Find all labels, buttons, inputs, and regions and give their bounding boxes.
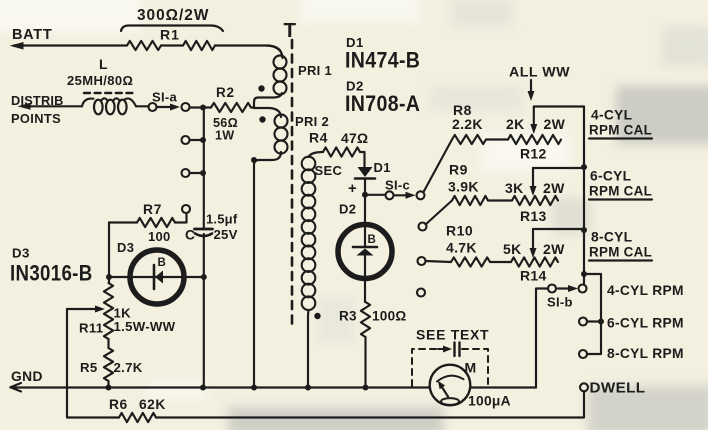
potentiometer R11 (67, 283, 176, 339)
wire (424, 140, 453, 193)
potentiometer R12 (506, 107, 566, 162)
svg-text:47Ω: 47Ω (341, 131, 368, 146)
label ALL WW (509, 65, 570, 102)
wire (190, 106, 212, 108)
wire (14, 44, 127, 46)
wire (534, 105, 584, 107)
wire (107, 339, 109, 348)
resistor R6 (67, 397, 166, 422)
svg-text:+: + (348, 180, 357, 197)
meter M (430, 360, 477, 406)
node junction (362, 192, 368, 198)
resistor R7 (109, 202, 187, 244)
svg-text:5K: 5K (503, 241, 522, 257)
svg-text:100Ω: 100Ω (372, 309, 407, 324)
potentiometer R14 (503, 229, 565, 284)
wire (490, 261, 511, 263)
svg-text:8-CYL RPM: 8-CYL RPM (607, 346, 684, 361)
wire (108, 223, 110, 284)
brace over R1 (121, 26, 223, 32)
terminal 4-CYL RPM (579, 283, 684, 298)
phasing dot PRI 1 (258, 85, 264, 91)
potentiometer R13 (505, 168, 565, 224)
svg-text:R3: R3 (339, 309, 357, 324)
svg-text:4.7K: 4.7K (446, 240, 477, 256)
svg-text:2.2K: 2.2K (452, 116, 483, 132)
svg-text:R10: R10 (446, 223, 473, 239)
transformer primary 1 winding PRI 1 (254, 46, 287, 109)
svg-text:L: L (99, 56, 109, 72)
svg-text:2W: 2W (544, 116, 566, 132)
terminal 8-CYL RPM (579, 346, 684, 361)
svg-text:25MH/80Ω: 25MH/80Ω (67, 73, 133, 88)
node junction (106, 274, 112, 280)
label 6-CYL RPM CAL (589, 169, 652, 200)
svg-text:1.5W-WW: 1.5W-WW (114, 319, 176, 334)
wire (470, 386, 536, 388)
switch SI-c contact 3 (418, 257, 426, 265)
resistor R8 (452, 102, 486, 144)
switch SI-a spare contact 1 (182, 136, 207, 144)
node junction (581, 227, 587, 233)
svg-text:SI-c: SI-c (385, 178, 410, 193)
wire (22, 105, 82, 107)
terminal of R7 (182, 205, 190, 213)
wire GND rail (11, 386, 431, 388)
wire (584, 274, 601, 354)
svg-text:1.5μf: 1.5μf (206, 212, 238, 227)
svg-text:R1: R1 (160, 27, 180, 43)
svg-text:IN708-A: IN708-A (345, 92, 420, 117)
svg-text:25V: 25V (214, 227, 238, 242)
svg-text:1W: 1W (215, 129, 235, 143)
node junction (581, 164, 587, 170)
node GND (11, 369, 43, 392)
wire (486, 138, 508, 140)
switch SI-a spare contact 2 (182, 169, 207, 177)
svg-text:6-CYL RPM: 6-CYL RPM (607, 316, 684, 331)
svg-text:R11: R11 (79, 321, 103, 336)
svg-text:R12: R12 (520, 146, 547, 162)
trimmer capacitor in box (438, 343, 460, 357)
diode D1 (355, 160, 391, 179)
svg-text:2W: 2W (543, 180, 565, 196)
wire (364, 337, 366, 388)
node BATT (10, 27, 53, 50)
svg-text:100μA: 100μA (468, 394, 511, 409)
svg-text:RPM CAL: RPM CAL (589, 184, 652, 199)
svg-text:RPM CAL: RPM CAL (589, 123, 652, 138)
svg-text:SEC: SEC (315, 163, 343, 178)
wire (364, 179, 366, 225)
resistor R10 (446, 223, 490, 267)
svg-text:T: T (284, 19, 297, 42)
terminal 6-CYL RPM (579, 316, 684, 331)
svg-text:D1: D1 (374, 160, 391, 175)
wire (360, 152, 365, 167)
wire (536, 289, 548, 388)
svg-text:D3: D3 (12, 246, 30, 261)
svg-text:D3: D3 (117, 240, 134, 255)
svg-text:3.9K: 3.9K (448, 179, 479, 195)
svg-text:8-CYL: 8-CYL (591, 230, 632, 245)
svg-text:R14: R14 (520, 268, 547, 284)
svg-text:2.7K: 2.7K (114, 360, 143, 375)
wire (251, 106, 254, 108)
svg-text:4-CYL: 4-CYL (591, 108, 632, 123)
switch SI-b (547, 285, 578, 310)
svg-text:D2: D2 (339, 202, 356, 217)
svg-text:SEE TEXT: SEE TEXT (416, 327, 489, 343)
svg-text:R13: R13 (520, 208, 547, 224)
node junction (251, 385, 257, 391)
svg-text:M: M (465, 360, 477, 376)
svg-text:2K: 2K (506, 116, 525, 132)
node junction (106, 385, 112, 391)
svg-text:BATT: BATT (12, 27, 52, 43)
node junction (363, 385, 369, 391)
svg-text:R7: R7 (143, 202, 162, 217)
resistor R1 (127, 41, 215, 50)
svg-text:4-CYL RPM: 4-CYL RPM (607, 283, 684, 298)
resistor R9 (448, 162, 488, 206)
inductor L (82, 98, 136, 114)
transformer primary 2 winding PRI 2 (254, 108, 288, 388)
svg-text:B: B (158, 257, 166, 269)
wire (533, 167, 584, 169)
svg-text:3K: 3K (505, 180, 524, 196)
wire (203, 108, 205, 230)
node junction (305, 385, 311, 391)
node junction (200, 385, 206, 391)
wire (365, 194, 386, 196)
svg-text:300Ω/2W: 300Ω/2W (137, 7, 209, 24)
wire (107, 381, 109, 388)
diode D2 (338, 225, 392, 279)
wire (488, 199, 512, 201)
switch SI-c contact 4 (417, 289, 425, 297)
wire (66, 309, 68, 418)
svg-text:R6: R6 (109, 397, 128, 412)
resistor R2 (211, 85, 251, 143)
wire bus (583, 107, 585, 285)
svg-text:RPM CAL: RPM CAL (589, 245, 652, 260)
svg-text:R5: R5 (80, 360, 97, 375)
resistor R4 (309, 130, 368, 157)
svg-text:DWELL: DWELL (590, 380, 646, 397)
label 4-CYL RPM CAL (589, 108, 652, 139)
transformer secondary winding SEC (302, 152, 323, 388)
svg-text:R9: R9 (449, 162, 468, 178)
diode D3 (130, 250, 184, 304)
wire (426, 261, 452, 262)
iron-core dashed line of L (84, 92, 137, 94)
wire (533, 228, 584, 230)
svg-text:C: C (185, 228, 195, 243)
svg-text:POINTS: POINTS (11, 111, 61, 126)
svg-text:GND: GND (11, 369, 43, 384)
phasing dot SEC (314, 313, 320, 319)
svg-text:2W: 2W (543, 241, 565, 257)
switch SI-c (385, 178, 425, 200)
svg-text:6-CYL: 6-CYL (590, 169, 631, 184)
wire (364, 279, 366, 303)
wire (136, 105, 149, 107)
phasing dot PRI 2 (259, 116, 265, 122)
svg-text:PRI 1: PRI 1 (298, 63, 332, 78)
node junction (581, 271, 587, 277)
wire (109, 276, 204, 278)
svg-text:IN474-B: IN474-B (345, 48, 420, 73)
wire (426, 201, 453, 225)
svg-text:PRI 2: PRI 2 (295, 114, 329, 129)
svg-text:IN3016-B: IN3016-B (10, 261, 93, 286)
label D1 value (345, 35, 420, 73)
svg-text:SI-b: SI-b (547, 295, 573, 310)
svg-text:R4: R4 (309, 130, 328, 146)
node junction (200, 105, 206, 111)
node junction (201, 274, 207, 280)
node junction (251, 157, 257, 163)
svg-text:R2: R2 (216, 85, 235, 100)
svg-text:62K: 62K (139, 397, 166, 412)
wire (203, 234, 205, 388)
wire (156, 392, 584, 418)
svg-text:B: B (368, 234, 376, 246)
svg-text:100: 100 (148, 229, 171, 244)
switch SI-a (149, 90, 190, 112)
dashed box SEE TEXT (412, 349, 488, 386)
transformer T core (291, 40, 294, 330)
switch SI-c contact 2 (419, 223, 427, 231)
label 8-CYL RPM CAL (589, 230, 652, 261)
resistor R5 (80, 348, 143, 381)
terminal DWELL (580, 380, 646, 397)
node DISTRIB POINTS (11, 93, 64, 126)
resistor R3 (339, 302, 407, 337)
label D3 value (10, 246, 93, 286)
svg-text:ALL WW: ALL WW (509, 65, 570, 81)
capacitor C (185, 212, 238, 243)
wire (215, 46, 282, 57)
svg-text:SI-a: SI-a (152, 90, 178, 105)
label D2 value (345, 79, 420, 117)
